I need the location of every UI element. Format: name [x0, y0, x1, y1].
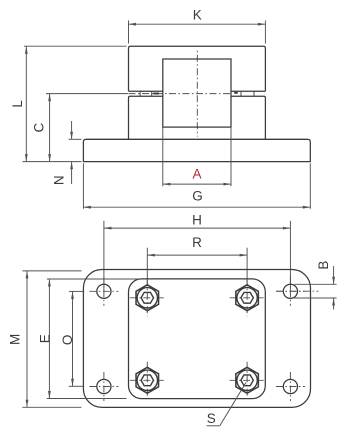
svg-text:H: H — [192, 212, 202, 227]
svg-text:B: B — [316, 261, 331, 270]
svg-text:G: G — [192, 188, 203, 203]
svg-text:S: S — [207, 411, 216, 426]
svg-text:R: R — [192, 235, 202, 250]
svg-text:N: N — [52, 175, 67, 185]
svg-text:L: L — [10, 100, 25, 108]
svg-text:C: C — [32, 122, 47, 132]
svg-text:K: K — [193, 8, 202, 23]
svg-text:O: O — [60, 335, 75, 346]
svg-text:A: A — [192, 166, 201, 181]
svg-text:E: E — [37, 334, 52, 343]
svg-text:M: M — [8, 334, 23, 345]
